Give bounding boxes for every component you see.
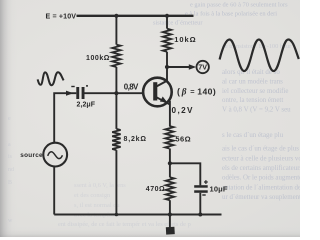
wire emitter node to C 10uF bbox=[170, 163, 200, 185]
svg-text:ent dissipée, de ce fait le te: ent dissipée, de ce fait le tempér et va… bbox=[58, 221, 191, 228]
svg-text:470Ω: 470Ω bbox=[146, 186, 165, 193]
svg-text:10μF: 10μF bbox=[210, 184, 228, 193]
input sine wave symbol bbox=[38, 72, 64, 85]
ground symbol bbox=[166, 227, 175, 235]
polarity minus of 10uF bbox=[202, 194, 205, 195]
node: divider / bottom rail junction bbox=[115, 213, 119, 217]
svg-text:ssent à 0,6 V, la tens: ssent à 0,6 V, la tens bbox=[74, 182, 126, 189]
polarity plus of 10uF bbox=[204, 180, 208, 184]
svg-text:source: source bbox=[20, 152, 43, 159]
svg-text:0,2V: 0,2V bbox=[172, 106, 194, 115]
svg-text:et des consign: et des consign bbox=[74, 192, 111, 199]
svg-text:2,2μF: 2,2μF bbox=[77, 101, 96, 108]
wire R8.2k to bottom rail bbox=[115, 150, 117, 214]
node: cap / rail junction bbox=[198, 213, 202, 217]
svg-text:ais le cas d´un étage de plus: ais le cas d´un étage de plus fo bbox=[222, 145, 300, 152]
svg-text:140): 140) bbox=[197, 87, 216, 97]
resistor 10k bbox=[163, 29, 171, 52]
svg-text:β: β bbox=[181, 87, 187, 97]
svg-text:7V: 7V bbox=[198, 63, 207, 72]
arrowhead 7V bbox=[189, 64, 196, 69]
polarity minus of 2.2uF bbox=[71, 86, 74, 87]
svg-text:e: e bbox=[8, 116, 11, 122]
transistor Q1 circle bbox=[143, 78, 172, 107]
arrow on input wire bbox=[66, 91, 73, 96]
wire input corner to capacitor bbox=[54, 93, 76, 143]
svg-text:a: a bbox=[8, 142, 11, 148]
svg-text:V à 0,8 V (V = 9,2 V seu: V à 0,8 V (V = 9,2 V seu bbox=[222, 107, 291, 114]
svg-text:e à la fois à la base polarisé: e à la fois à la base polarisée en deri bbox=[185, 11, 277, 18]
svg-text:els de certains amplificateurs: els de certains amplificateurs bbox=[222, 165, 300, 172]
svg-text:ur d´émetteur va souplement: ur d´émetteur va souplement bbox=[222, 194, 300, 201]
svg-text:is: is bbox=[8, 154, 13, 160]
wire C10uF to bottom rail bbox=[199, 193, 201, 215]
wire source to bottom rail bbox=[53, 166, 55, 214]
resistor 56 bbox=[165, 126, 173, 149]
capacitor 10uF plates bbox=[194, 185, 208, 188]
svg-text:s, il est normal qu: s, il est normal qu bbox=[74, 202, 120, 209]
svg-text:sistance d´émetteur: sistance d´émetteur bbox=[153, 19, 203, 26]
svg-text:B: B bbox=[8, 180, 12, 186]
wire rail to R 10k bbox=[166, 16, 168, 29]
resistor 470 bbox=[166, 177, 174, 200]
resistor 8.2k bbox=[112, 129, 120, 150]
node: ground junction bbox=[168, 213, 172, 217]
svg-text:antation de l´alimentation de: antation de l´alimentation de bbox=[222, 184, 300, 191]
svg-text:0,8V: 0,8V bbox=[124, 82, 139, 91]
node: rail / 100k junction bbox=[114, 14, 118, 18]
wire ground bottom rail bbox=[54, 214, 221, 216]
wire rail to R 100k bbox=[115, 16, 117, 45]
node: rail / 10k junction bbox=[165, 14, 169, 18]
7V measurement circle bbox=[197, 61, 209, 73]
svg-text:ecteur à celle de plusieurs vo: ecteur à celle de plusieurs vol bbox=[222, 155, 300, 162]
transistor collector stroke bbox=[157, 81, 168, 87]
wire R470 to bottom rail bbox=[169, 200, 171, 214]
polarity dot of 2.2uF bbox=[86, 85, 88, 87]
transistor base bar bbox=[153, 82, 157, 100]
node: base junction bbox=[114, 91, 118, 95]
svg-text:56Ω: 56Ω bbox=[175, 134, 190, 143]
node: emitter bypass junction bbox=[168, 161, 172, 165]
svg-text:w: w bbox=[8, 218, 13, 224]
transistor emitter arrowhead bbox=[160, 97, 167, 103]
svg-text:E = +10V: E = +10V bbox=[46, 12, 77, 20]
source sine symbol bbox=[48, 152, 63, 159]
resistor 100k bbox=[112, 45, 120, 67]
svg-text:ontre, la tension émett: ontre, la tension émett bbox=[222, 97, 283, 104]
wire +10V top rail bbox=[77, 15, 194, 17]
wire R10k to collector bbox=[166, 52, 168, 82]
svg-text:nd: nd bbox=[8, 167, 14, 173]
wire ground stem bbox=[169, 215, 171, 228]
svg-text:8,2kΩ: 8,2kΩ bbox=[124, 136, 147, 143]
wire R100k to base node bbox=[115, 67, 117, 93]
svg-text:=: = bbox=[190, 87, 195, 96]
node: collector / 7V tap bbox=[165, 65, 169, 69]
transistor emitter stroke bbox=[157, 97, 170, 104]
svg-text:al car un modèle trans: al car un modèle trans bbox=[222, 78, 283, 85]
output sine wave symbol bbox=[220, 40, 299, 72]
wire R56 to emitter node bbox=[169, 149, 171, 178]
svg-text:s le cas d´un étage plu: s le cas d´un étage plu bbox=[222, 132, 284, 139]
wire capacitor to base bbox=[85, 92, 144, 94]
svg-text:10kΩ: 10kΩ bbox=[174, 35, 196, 44]
wire base node to R 8.2k bbox=[115, 93, 117, 129]
source (AC generator) circle bbox=[43, 143, 67, 167]
svg-text:iel collecteur se modifie: iel collecteur se modifie bbox=[222, 88, 288, 95]
wire emitter to R 56 bbox=[169, 101, 171, 126]
svg-text:100kΩ: 100kΩ bbox=[86, 55, 110, 62]
svg-text:e gain passe de 60 à 70 seulem: e gain passe de 60 à 70 seulement lors bbox=[190, 2, 288, 9]
capacitor 2.2uF plates bbox=[76, 87, 79, 99]
wire 7V tap arrow bbox=[167, 66, 190, 68]
svg-text:(: ( bbox=[177, 87, 180, 97]
svg-text:odèles. Or le poids augmente a: odèles. Or le poids augmente a bbox=[222, 174, 300, 181]
